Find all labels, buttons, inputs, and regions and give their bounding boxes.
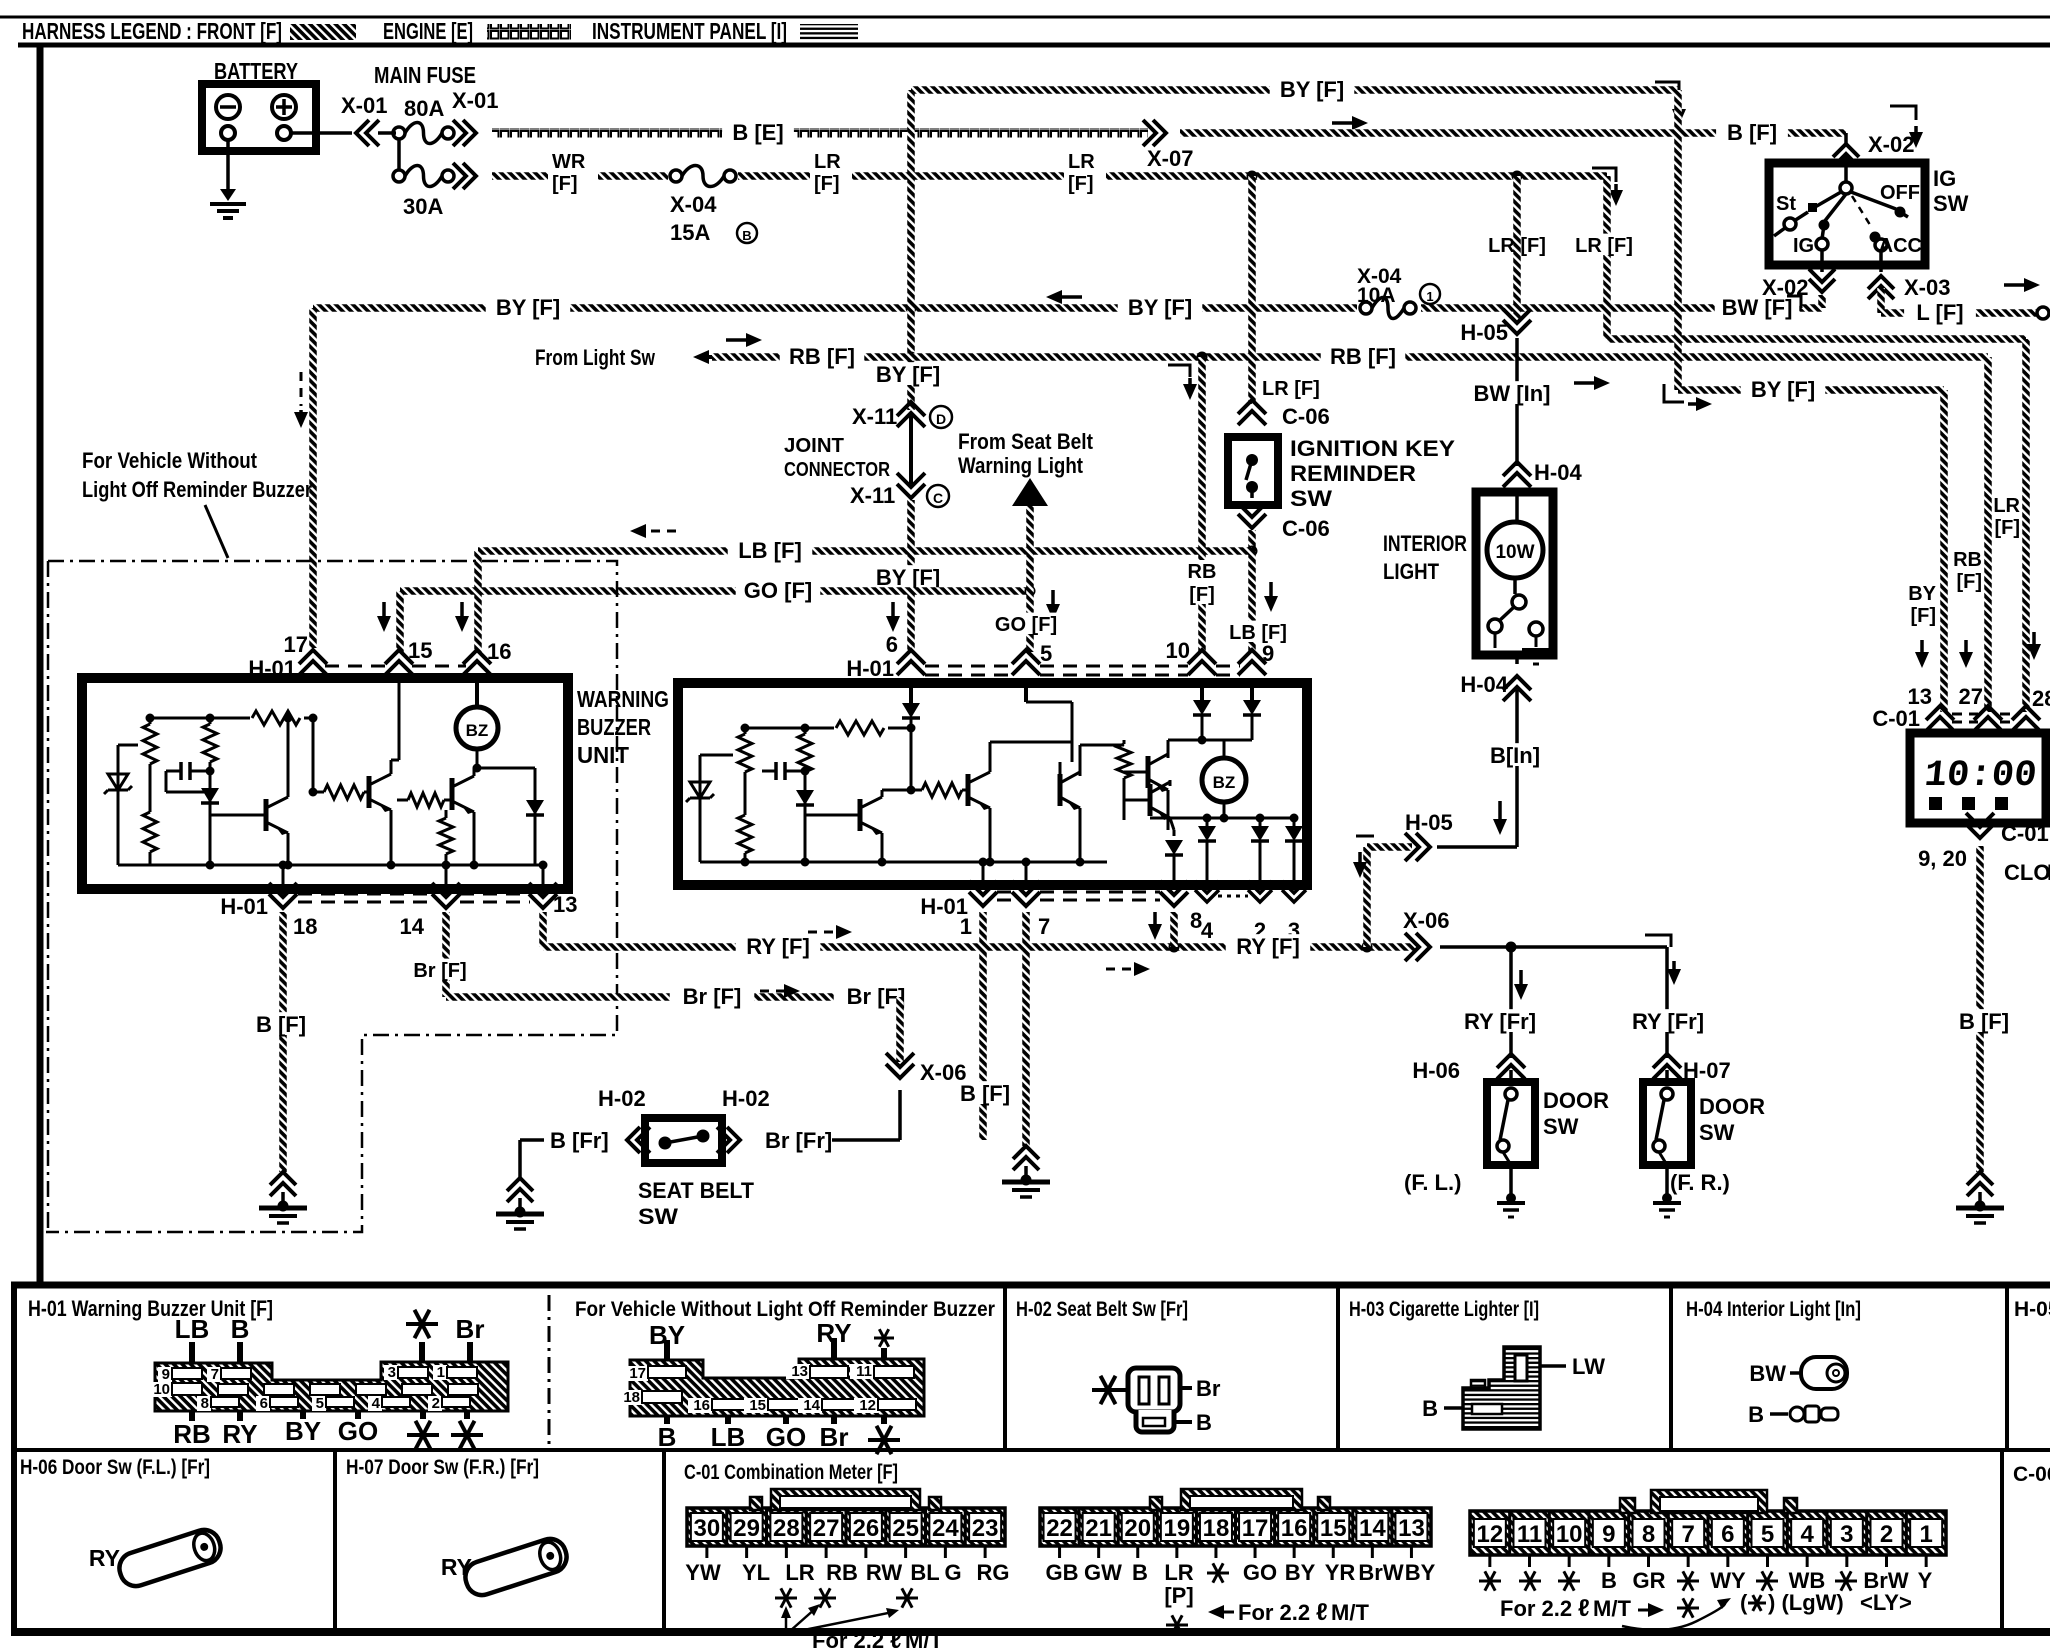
buzzer2 resistor R6 bbox=[911, 789, 922, 792]
svg-text:1: 1 bbox=[1426, 289, 1433, 304]
wire BW [F] from IG SW bbox=[1818, 295, 1826, 308]
svg-text:(F. L.): (F. L.) bbox=[1404, 1170, 1461, 1195]
buzzer2 bottom rail bbox=[700, 861, 1107, 864]
buzzer1 pin17 drop bbox=[312, 718, 315, 792]
connector X-11 (D) bbox=[897, 402, 925, 427]
label RY [Fr] (left) bbox=[1451, 1009, 1548, 1032]
svg-text:RG: RG bbox=[977, 1560, 1010, 1585]
connector X-01 (battery side) bbox=[356, 120, 379, 146]
svg-text:H-02: H-02 bbox=[598, 1086, 646, 1111]
battery positive post bbox=[277, 126, 291, 140]
corner mark with arrow (H-07 branch) bbox=[1645, 935, 1671, 947]
buzzer1 resistor R4 bbox=[445, 810, 448, 865]
svg-text:LR [F]: LR [F] bbox=[1262, 378, 1320, 400]
wire LB [F] row bbox=[478, 547, 1252, 555]
junction RY/H-05 branch bbox=[1362, 942, 1373, 953]
svg-text:7: 7 bbox=[1681, 1521, 1694, 1548]
svg-text:St: St bbox=[1776, 193, 1796, 215]
svg-text:6: 6 bbox=[260, 1395, 268, 1412]
wire IG down bbox=[1820, 250, 1824, 272]
svg-text:H-05: H-05 bbox=[1460, 320, 1508, 345]
svg-text:SW: SW bbox=[638, 1204, 678, 1229]
svg-text:15: 15 bbox=[408, 638, 432, 663]
connector C-01 chevrons bbox=[1926, 706, 1954, 731]
dashed arrow right (Br row) bbox=[760, 990, 786, 993]
svg-text:CLOC: CLOC bbox=[2004, 860, 2050, 885]
svg-text:27: 27 bbox=[1959, 684, 1983, 709]
flow arrow left (BY row) bbox=[1060, 295, 1082, 299]
connector C-06 below clock bbox=[1966, 813, 1994, 838]
connector H-04 (top) bbox=[1503, 462, 1531, 487]
C-01 connector strip 30-23 bbox=[687, 1508, 1005, 1546]
table divider r1-c1/c2 bbox=[1003, 1285, 1007, 1450]
flow arrow down (B In) bbox=[1498, 801, 1502, 821]
label Br [F] (row,1) bbox=[670, 984, 755, 1007]
svg-text:B [F]: B [F] bbox=[256, 1012, 306, 1037]
svg-text:26: 26 bbox=[853, 1515, 880, 1542]
label B[In] bbox=[1479, 743, 1551, 766]
buzzer1 transistor Q2 bbox=[367, 776, 372, 808]
svg-text:BY: BY bbox=[1405, 1560, 1436, 1585]
connector X-03 bbox=[1868, 276, 1894, 299]
svg-text:LB: LB bbox=[175, 1314, 210, 1344]
buzzer2 pin5 jog bbox=[1024, 683, 1028, 702]
svg-text:BY: BY bbox=[1908, 583, 1936, 605]
buzzer1 zener leg bbox=[118, 744, 150, 747]
buzzer2 transistor Q8 bbox=[1148, 784, 1153, 816]
wire LR [F] segment 3 bbox=[1106, 172, 1607, 180]
door switch H-07 box bbox=[1643, 1082, 1691, 1165]
buzzer1 diode D2 bbox=[534, 768, 537, 865]
svg-text:12: 12 bbox=[1476, 1521, 1503, 1548]
svg-text:(F. R.): (F. R.) bbox=[1670, 1170, 1730, 1195]
connector dashes (unit1 top) bbox=[325, 665, 388, 668]
dashed arrow left (LB row) bbox=[644, 530, 676, 533]
svg-text:B [E]: B [E] bbox=[732, 120, 783, 145]
battery B1 bbox=[202, 84, 316, 151]
H-01 face wire BY bbox=[300, 1411, 306, 1419]
svg-text:RB: RB bbox=[173, 1419, 211, 1449]
svg-text:24: 24 bbox=[932, 1515, 959, 1542]
svg-text:10: 10 bbox=[153, 1381, 170, 1398]
svg-text:GW: GW bbox=[1084, 1560, 1122, 1585]
buzzer2 pin10 diode D4 bbox=[1200, 683, 1204, 700]
label Br [F] (row,2) bbox=[834, 984, 919, 1007]
label BY [F] (on vertical) bbox=[866, 362, 951, 385]
svg-text:3: 3 bbox=[388, 1364, 396, 1381]
svg-text:19: 19 bbox=[1163, 1515, 1190, 1542]
circled D bbox=[930, 406, 952, 428]
wire RB [F] to clock pin 27 bbox=[1984, 357, 1992, 712]
wire B pin7 down bbox=[1022, 912, 1030, 1146]
svg-text:C-06: C-06 bbox=[2013, 1463, 2050, 1486]
svg-text:H-01: H-01 bbox=[248, 656, 296, 681]
svg-text:H-04: H-04 bbox=[1534, 460, 1582, 485]
svg-text:9: 9 bbox=[1262, 641, 1274, 666]
H-03 slot B bbox=[1472, 1404, 1502, 1414]
svg-text:X-02: X-02 bbox=[1868, 132, 1914, 157]
svg-text:SW: SW bbox=[1933, 191, 1969, 216]
seat belt switch contacts bbox=[659, 1137, 672, 1150]
variant face star top bbox=[874, 1337, 894, 1340]
connector X-02 (IG out) bbox=[1809, 269, 1835, 292]
connector X-07 bbox=[1143, 120, 1166, 146]
svg-text:10:00: 10:00 bbox=[1922, 755, 2038, 797]
svg-text:LR: LR bbox=[1068, 151, 1095, 173]
H-01 top pins (unit2) bbox=[897, 650, 925, 675]
wire Br [Fr] bbox=[832, 1138, 900, 1142]
svg-text:RB: RB bbox=[826, 1560, 858, 1585]
C-01 strip2 note arrow bbox=[1222, 1611, 1234, 1614]
svg-text:From Light Sw: From Light Sw bbox=[535, 345, 656, 370]
svg-text:6: 6 bbox=[1721, 1521, 1734, 1548]
wire LB vertical to pin 16 bbox=[474, 551, 482, 652]
wire C-06 to LB row bbox=[1248, 530, 1256, 551]
reminder switch contacts bbox=[1246, 454, 1258, 466]
buzzer BZ2 bbox=[1202, 758, 1246, 802]
H-01 bottom pins (unit1) bbox=[269, 883, 297, 908]
junction LR/interior-light branch bbox=[1512, 171, 1523, 182]
H-01 face star bottom 1 bbox=[420, 1411, 426, 1419]
svg-text:B: B bbox=[1748, 1402, 1764, 1427]
svg-text:OFF: OFF bbox=[1880, 182, 1920, 204]
label GO [F] (row) bbox=[736, 578, 821, 601]
svg-text:BY [F]: BY [F] bbox=[1128, 295, 1192, 320]
svg-text:For Vehicle Without: For Vehicle Without bbox=[82, 448, 258, 473]
svg-text:RY [Fr]: RY [Fr] bbox=[1632, 1009, 1704, 1034]
H-02 lower lip bbox=[1136, 1410, 1174, 1432]
label BW [F] bbox=[1715, 295, 1800, 318]
svg-text:X-11: X-11 bbox=[850, 483, 895, 508]
svg-text:B [Fr]: B [Fr] bbox=[550, 1128, 609, 1153]
svg-text:11: 11 bbox=[1517, 1521, 1542, 1548]
header top rule bbox=[0, 16, 2050, 19]
dashed arrow right (RY row,1) bbox=[808, 931, 838, 934]
connector X-06 (seat belt) bbox=[886, 1053, 914, 1078]
svg-text:29: 29 bbox=[733, 1515, 760, 1542]
svg-text:GO: GO bbox=[338, 1416, 378, 1446]
variant face wire LB bbox=[725, 1416, 731, 1424]
C-01 strip3 arrow star bbox=[1638, 1609, 1650, 1612]
svg-text:ℓ: ℓ bbox=[1578, 1595, 1590, 1622]
svg-text:L [F]: L [F] bbox=[1916, 300, 1963, 325]
flow arrow down (clock col 27) bbox=[1964, 640, 1968, 654]
H-01 face wire Br bbox=[467, 1342, 473, 1362]
svg-text:16: 16 bbox=[487, 639, 511, 664]
ground (pin7) bbox=[1013, 1146, 1039, 1170]
svg-text:BY [F]: BY [F] bbox=[1280, 77, 1344, 102]
buzzer2 transistor Q4 bbox=[858, 799, 863, 831]
table divider r1-c2/c3 bbox=[1336, 1285, 1340, 1450]
buzzer2 pin7 lead bbox=[1025, 862, 1028, 884]
svg-text:LR: LR bbox=[1164, 1560, 1193, 1585]
wire RB [F] vertical to pin 10 bbox=[1198, 357, 1206, 652]
label GO [F] (vertical) bbox=[987, 613, 1065, 634]
fuse 80A bbox=[393, 127, 405, 139]
svg-text:GO [F]: GO [F] bbox=[744, 578, 812, 603]
buzzer1 bottom rail bbox=[118, 864, 543, 867]
svg-text:14: 14 bbox=[1359, 1515, 1386, 1542]
ground (pin18) bbox=[270, 1172, 296, 1196]
buzzer2 diode join bbox=[1202, 739, 1252, 742]
wire [F] H-05 to RY bbox=[1367, 843, 1412, 851]
svg-text:17: 17 bbox=[629, 1365, 646, 1382]
wire H-06 to ground bbox=[1509, 1165, 1513, 1196]
connector X-01 (30A out) bbox=[453, 163, 476, 189]
ignition key reminder switch box bbox=[1228, 437, 1278, 505]
svg-text:[F]: [F] bbox=[1189, 584, 1215, 606]
svg-text:[F]: [F] bbox=[814, 173, 840, 195]
wire RY [Fr] to H-07 bbox=[1665, 947, 1669, 1058]
svg-text:15: 15 bbox=[1320, 1515, 1347, 1542]
svg-text:17: 17 bbox=[1242, 1515, 1269, 1542]
buzzer2 leg2 bbox=[804, 728, 807, 862]
wire B [In] bbox=[1515, 655, 1519, 664]
battery negative post bbox=[221, 126, 235, 140]
variant face wire RY bbox=[831, 1338, 837, 1359]
buzzer2 resistor R7 bbox=[1071, 742, 1074, 762]
svg-text:LR: LR bbox=[785, 1560, 814, 1585]
wire LR [F] row y=339 bbox=[1607, 335, 2026, 343]
buzzer1 left leg resistors bbox=[149, 718, 152, 865]
connector H-04 (bottom) bbox=[1503, 676, 1531, 701]
svg-text:H-05: H-05 bbox=[2014, 1298, 2050, 1321]
table divider r1-c3/c4 bbox=[1669, 1285, 1673, 1450]
svg-text:RY [Fr]: RY [Fr] bbox=[1464, 1009, 1536, 1034]
svg-text:Light Off Reminder Buzzer: Light Off Reminder Buzzer bbox=[82, 477, 312, 502]
IG SW ACC contact bbox=[1870, 232, 1881, 243]
front harness pattern sample bbox=[290, 24, 356, 40]
svg-text:18: 18 bbox=[623, 1389, 640, 1406]
corner mark with arrow (H-05) bbox=[1356, 835, 1374, 838]
label LB [F] (row) bbox=[728, 538, 813, 561]
buzzer2 pin6 diode D3 bbox=[909, 683, 913, 703]
svg-text:M/T: M/T bbox=[1331, 1600, 1369, 1625]
svg-text:C-01 Combination Meter [F]: C-01 Combination Meter [F] bbox=[684, 1461, 898, 1484]
warning buzzer unit 1 box bbox=[82, 678, 568, 889]
IG SW dashed wiper bbox=[1852, 196, 1872, 228]
wire L [F] from X-03 bbox=[1877, 288, 1885, 313]
flow arrow down (pin6) bbox=[891, 602, 895, 618]
svg-text:H-04 Interior Light [In]: H-04 Interior Light [In] bbox=[1686, 1298, 1861, 1321]
wire H-07 to ground bbox=[1665, 1165, 1669, 1196]
svg-text:B: B bbox=[1601, 1568, 1617, 1593]
table bottom border bbox=[11, 1628, 2050, 1636]
battery plus terminal mark bbox=[272, 95, 296, 119]
svg-text:5: 5 bbox=[1040, 641, 1052, 666]
svg-text:ℓ: ℓ bbox=[1316, 1599, 1328, 1626]
svg-text:14: 14 bbox=[803, 1397, 820, 1414]
label B [F] (clock ground) bbox=[1948, 1009, 2020, 1032]
connector H-07 bbox=[1653, 1054, 1681, 1079]
wire WR [F] bbox=[492, 172, 548, 180]
connector C-06 (bottom) bbox=[1238, 503, 1266, 528]
interior light bulb 10W bbox=[1515, 492, 1519, 522]
corner mark with arrow (B to IG SW) bbox=[1890, 106, 1916, 120]
wire B [F] from pin18 bbox=[279, 912, 287, 1172]
svg-text:YW: YW bbox=[685, 1560, 721, 1585]
svg-text:GO: GO bbox=[766, 1422, 806, 1452]
svg-text:DOOR: DOOR bbox=[1543, 1088, 1609, 1113]
ground (battery) bbox=[220, 189, 236, 201]
table divider r2-c2/c3 bbox=[662, 1450, 666, 1632]
label LR [F] (on vertical x1517) bbox=[1478, 234, 1556, 255]
svg-text:ENGINE [E]: ENGINE [E] bbox=[383, 18, 473, 44]
svg-text:RY: RY bbox=[816, 1318, 851, 1348]
buzzer2 pin1 lead bbox=[982, 862, 985, 884]
circled C bbox=[927, 485, 949, 507]
wire RY [F] from pin13 bbox=[539, 912, 547, 947]
buzzer1 capacitor bbox=[166, 770, 181, 773]
buzzer2 diode D7 bbox=[1259, 818, 1262, 826]
flow arrow down (pin15) bbox=[382, 602, 386, 618]
svg-text:14: 14 bbox=[400, 914, 425, 939]
label RB [F] (row,2) bbox=[1321, 344, 1406, 367]
buzzer1 leg2 bbox=[209, 718, 212, 865]
svg-text:SW: SW bbox=[1543, 1114, 1579, 1139]
svg-text:BZ: BZ bbox=[1213, 773, 1236, 792]
svg-text:B: B bbox=[742, 228, 751, 243]
buzzer1 transistor Q3 bbox=[450, 778, 455, 810]
connector X-06 (RY row) bbox=[1405, 933, 1430, 961]
svg-text:15: 15 bbox=[749, 1397, 766, 1414]
svg-text:80A: 80A bbox=[404, 96, 444, 121]
wire BY [F] vertical to pin 17 bbox=[309, 308, 317, 648]
buzzer BZ1 bbox=[475, 678, 479, 708]
H-01 connector face bbox=[155, 1362, 508, 1411]
svg-text:Br [F]: Br [F] bbox=[683, 984, 742, 1009]
svg-text:H-04: H-04 bbox=[1460, 672, 1508, 697]
label B [F] bbox=[1716, 120, 1788, 143]
H-02 label Br bbox=[1180, 1386, 1192, 1390]
label Br [F] (pin14) bbox=[401, 959, 479, 980]
svg-text:C-06: C-06 bbox=[1282, 404, 1330, 429]
svg-text:M/T: M/T bbox=[905, 1628, 943, 1648]
svg-text:IGNITION KEY: IGNITION KEY bbox=[1290, 436, 1455, 461]
interior light box bbox=[1476, 492, 1553, 655]
connector C-06 (top) bbox=[1238, 400, 1266, 425]
svg-text:[F]: [F] bbox=[552, 173, 578, 195]
svg-text:[F]: [F] bbox=[1910, 605, 1936, 627]
ground (H-07) bbox=[1662, 1193, 1672, 1203]
svg-text:13: 13 bbox=[791, 1363, 808, 1380]
connector H-05 (bottom) bbox=[1405, 833, 1430, 861]
svg-text:2: 2 bbox=[1880, 1521, 1893, 1548]
joint connector plain wire bbox=[909, 416, 913, 484]
svg-text:H-03 Cigarette Lighter [I]: H-03 Cigarette Lighter [I] bbox=[1349, 1298, 1539, 1321]
junction LB row end bbox=[1247, 546, 1258, 557]
door switch H-06 contacts bbox=[1509, 1070, 1513, 1086]
junction BY row / BY vertical bbox=[906, 303, 917, 314]
svg-text:6: 6 bbox=[886, 632, 898, 657]
buzzer2 diode D9 bbox=[1173, 830, 1176, 836]
buzzer2 transistor Q6 bbox=[1058, 774, 1063, 806]
wire BY [F] row (left half) bbox=[313, 304, 1789, 312]
svg-text:BL: BL bbox=[910, 1560, 939, 1585]
main frame left border bbox=[37, 45, 44, 1285]
junction RB/LR bbox=[1197, 352, 1208, 363]
junction BY row y=357 crossing bbox=[906, 352, 917, 363]
arrow up (from seat belt warning light) bbox=[1012, 478, 1048, 506]
svg-text:13: 13 bbox=[1398, 1515, 1425, 1542]
svg-text:D: D bbox=[936, 411, 946, 427]
battery minus terminal mark bbox=[216, 95, 240, 119]
svg-text:B: B bbox=[231, 1314, 250, 1344]
wire GO [F] row bbox=[400, 587, 1030, 595]
svg-text:IG: IG bbox=[1793, 235, 1814, 257]
battery ground wire bbox=[226, 140, 230, 196]
label B [F] (pin18) bbox=[245, 1012, 317, 1035]
svg-text:30A: 30A bbox=[403, 194, 443, 219]
fuse link wire bbox=[397, 139, 401, 170]
svg-text:H-06: H-06 bbox=[1412, 1058, 1460, 1083]
corner mark with arrow (top right) bbox=[1655, 82, 1679, 96]
fuse X-04 15A bbox=[670, 170, 682, 182]
svg-text:[P]: [P] bbox=[1164, 1583, 1193, 1608]
H-01 top pins (unit1) bbox=[299, 650, 327, 675]
svg-text:LR [F]: LR [F] bbox=[1575, 235, 1633, 257]
svg-text:For Vehicle Without Light Off: For Vehicle Without Light Off Reminder B… bbox=[575, 1298, 995, 1321]
buzzer1 resistor R1 (rail) bbox=[250, 708, 304, 728]
connector X-02 (top of IG SW) bbox=[1844, 133, 1848, 146]
table divider r2-c1/c2 bbox=[333, 1450, 337, 1632]
wire BY [F] vertical (to pin 6) bbox=[907, 90, 915, 410]
fuse 30A bbox=[393, 170, 405, 182]
table left border bbox=[11, 1285, 17, 1632]
svg-text:RY: RY bbox=[89, 1545, 120, 1571]
svg-text:For 2.2: For 2.2 bbox=[1500, 1596, 1572, 1621]
label BY [F] (on vertical lower) bbox=[866, 565, 951, 588]
H-01 face star top bbox=[406, 1322, 438, 1326]
wire LR [F] to C-06 bbox=[1248, 176, 1256, 404]
buzzer2 transistor Q5 bbox=[966, 774, 971, 806]
svg-text:23: 23 bbox=[972, 1515, 999, 1542]
svg-text:BW [In]: BW [In] bbox=[1474, 381, 1551, 406]
ground (clock) bbox=[1967, 1172, 1993, 1196]
buzzer1 pin18 lead bbox=[282, 865, 285, 886]
svg-text:3: 3 bbox=[1840, 1521, 1853, 1548]
variant face wire BY bbox=[664, 1340, 670, 1360]
svg-text:SW: SW bbox=[1699, 1120, 1735, 1145]
svg-text:INTERIOR: INTERIOR bbox=[1383, 531, 1467, 556]
svg-text:BW [F]: BW [F] bbox=[1722, 295, 1793, 320]
wire ACC down bbox=[1879, 251, 1883, 272]
connector X-11 (C) bbox=[897, 473, 925, 498]
svg-text:JOINT: JOINT bbox=[784, 435, 844, 457]
svg-text:BY [F]: BY [F] bbox=[876, 362, 940, 387]
label LR [F] (on vertical x1607) bbox=[1565, 234, 1643, 255]
C-01 strip1 fan arrows bbox=[785, 1612, 788, 1633]
label BY [F] (row, 1) bbox=[486, 295, 571, 318]
IG SW wiper to OFF bbox=[1851, 192, 1896, 209]
wire BY [F] long vertical right bbox=[1674, 90, 1682, 390]
variant connector face bbox=[630, 1359, 924, 1416]
instrument panel pattern sample bbox=[800, 24, 858, 40]
variant face star bottom bbox=[881, 1416, 887, 1424]
connector dashes (clock) bbox=[1952, 713, 1978, 716]
interior light switch bbox=[1513, 578, 1517, 594]
wire GO vertical to pin 15 bbox=[396, 591, 404, 652]
svg-text:[F]: [F] bbox=[1956, 571, 1982, 593]
svg-text:H-02 Seat Belt Sw [Fr]: H-02 Seat Belt Sw [Fr] bbox=[1016, 1298, 1188, 1321]
table dash-dot divider (H-01 cell) bbox=[548, 1295, 551, 1445]
dashed arrow right (RY row,2) bbox=[1106, 968, 1136, 971]
wire BY [F] top row bbox=[911, 86, 1678, 94]
svg-text:ℓ: ℓ bbox=[890, 1627, 902, 1648]
wire Br [F] down to X-06 bbox=[896, 997, 904, 1062]
svg-text:IG: IG bbox=[1933, 166, 1956, 191]
svg-text:RB: RB bbox=[1188, 561, 1217, 583]
